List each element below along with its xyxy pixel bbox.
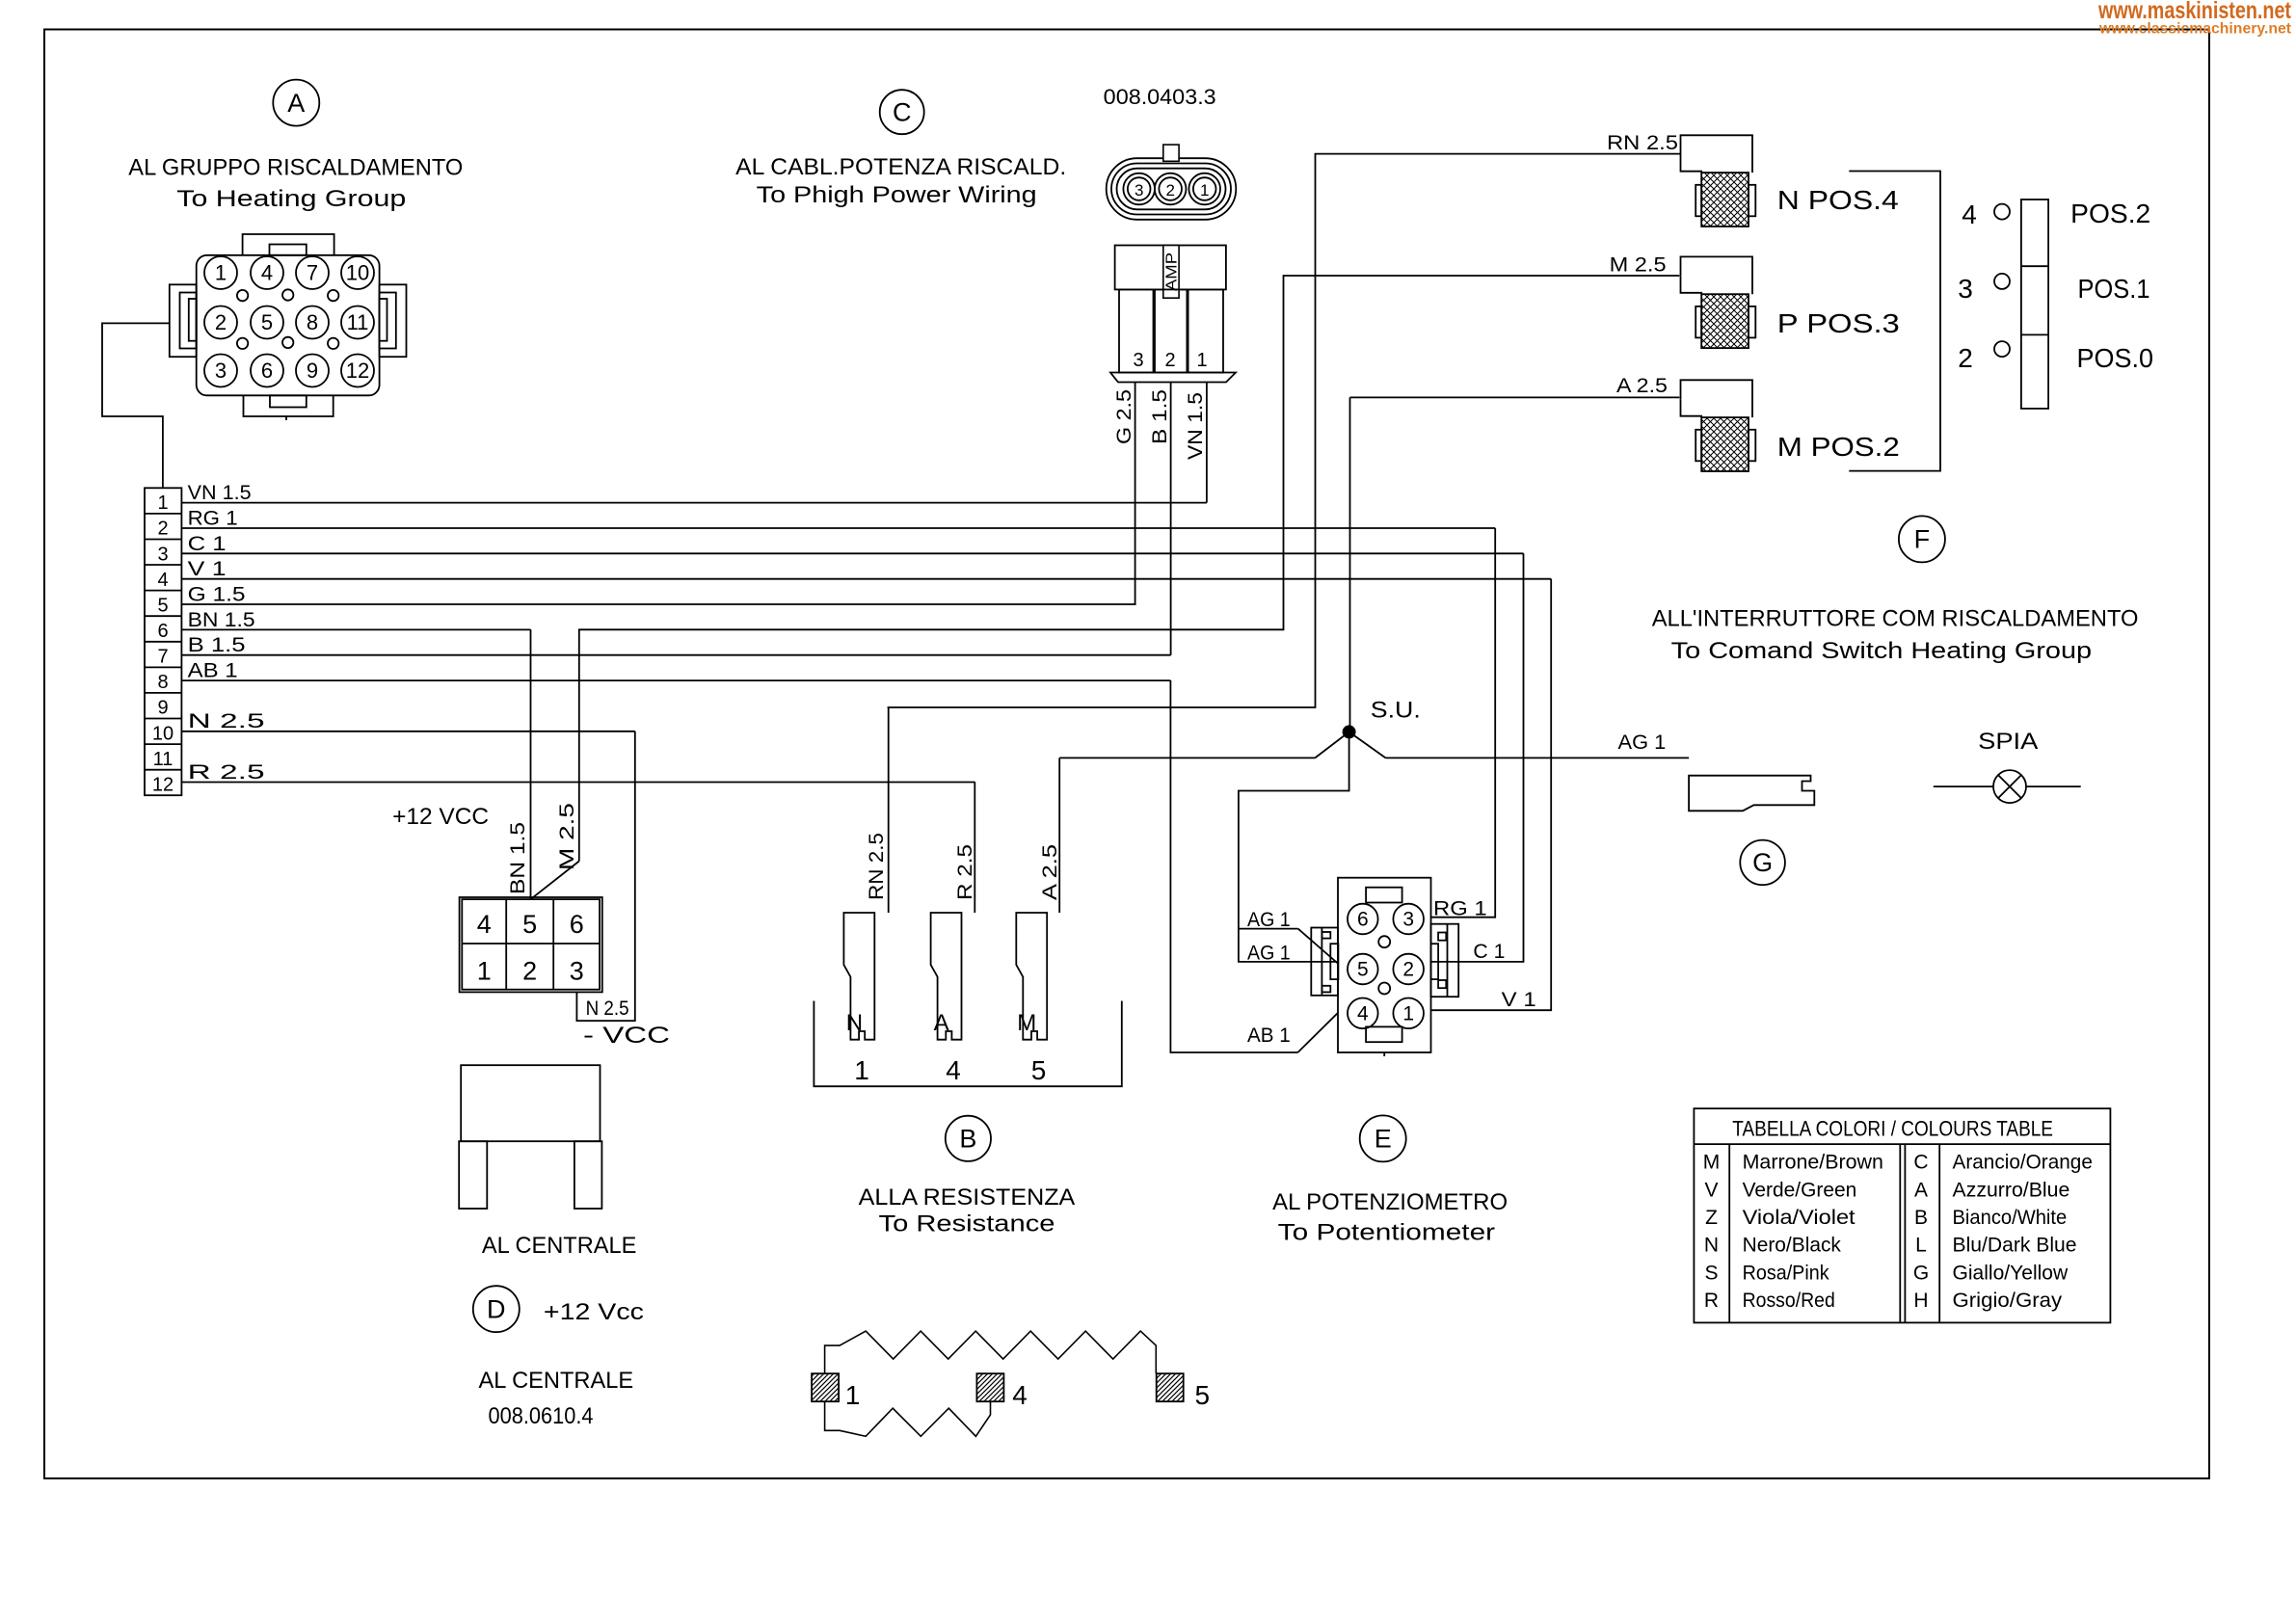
bullet connector P POS.3 — [1681, 256, 1753, 294]
svg-text:1: 1 — [1200, 181, 1209, 200]
splice left diagonal — [1315, 732, 1348, 758]
svg-text:AL CENTRALE: AL CENTRALE — [482, 1233, 637, 1259]
splice S.U. — [1343, 725, 1356, 738]
svg-text:AL CABL.POTENZA RISCALD.: AL CABL.POTENZA RISCALD. — [735, 154, 1066, 180]
svg-text:R: R — [1704, 1290, 1719, 1312]
wire G 1.5 from strip row 5 — [181, 603, 1135, 605]
svg-text:Viola/Violet: Viola/Violet — [1743, 1207, 1855, 1229]
svg-text:N: N — [846, 1010, 863, 1036]
wire B 1.5 from strip row 7 — [181, 654, 1170, 656]
AL CENTRALE connector — [461, 1065, 600, 1141]
svg-text:7: 7 — [307, 261, 318, 285]
svg-text:Giallo/Yellow: Giallo/Yellow — [1953, 1262, 2069, 1284]
svg-text:Blu/Dark Blue: Blu/Dark Blue — [1953, 1235, 2077, 1257]
oval pin 3 — [1123, 173, 1155, 205]
svg-text:POS.1: POS.1 — [2078, 274, 2150, 304]
svg-text:N: N — [1704, 1235, 1719, 1257]
label circle D — [473, 1286, 520, 1332]
svg-text:6: 6 — [570, 910, 584, 939]
svg-text:To Potentiometer: To Potentiometer — [1278, 1220, 1495, 1246]
pot pin 1 — [1393, 998, 1424, 1029]
svg-text:A 2.5: A 2.5 — [1616, 375, 1668, 397]
svg-text:Verde/Green: Verde/Green — [1743, 1179, 1857, 1201]
svg-text:1: 1 — [477, 957, 492, 986]
svg-text:C: C — [893, 98, 912, 127]
svg-text:1: 1 — [845, 1380, 861, 1410]
svg-text:4: 4 — [1012, 1380, 1028, 1410]
svg-text:G 2.5: G 2.5 — [1113, 389, 1135, 444]
bullet connector M POS.2 — [1681, 380, 1753, 417]
svg-text:1: 1 — [1196, 350, 1207, 371]
svg-text:F: F — [1914, 525, 1931, 554]
potentiometer connector body — [1338, 878, 1431, 1052]
svg-text:8: 8 — [157, 672, 168, 693]
tail VN 1.5 — [1206, 383, 1208, 503]
svg-text:V 1: V 1 — [188, 558, 227, 580]
svg-text:RN 2.5: RN 2.5 — [866, 833, 888, 900]
connector A left latch — [170, 284, 197, 357]
svg-text:3: 3 — [157, 544, 168, 565]
svg-text:TABELLA COLORI / COLOURS TABLE: TABELLA COLORI / COLOURS TABLE — [1732, 1116, 2053, 1140]
tail G 2.5 — [1135, 383, 1136, 605]
svg-text:To Phigh Power Wiring: To Phigh Power Wiring — [757, 182, 1037, 208]
pin 12 — [341, 355, 374, 387]
svg-text:B 1.5: B 1.5 — [1149, 389, 1171, 444]
bracket under blades — [814, 1001, 1121, 1087]
svg-text:4: 4 — [1962, 200, 1977, 229]
wire A 2.5 drop to blade M — [1058, 758, 1060, 913]
svg-text:5: 5 — [1195, 1380, 1211, 1410]
svg-text:M 2.5: M 2.5 — [556, 803, 578, 870]
wire V 1 — [1431, 579, 1552, 1011]
svg-text:12: 12 — [152, 775, 174, 796]
svg-text:A: A — [1914, 1179, 1928, 1201]
oval pin 2 — [1155, 173, 1187, 205]
wire AB 1 from strip row 8 — [181, 679, 1170, 681]
wire VN 1.5 from strip row 1 — [181, 502, 1207, 504]
connector A bottom tab — [244, 395, 334, 416]
svg-text:C: C — [1913, 1152, 1928, 1174]
svg-text:AL GRUPPO RISCALDAMENTO: AL GRUPPO RISCALDAMENTO — [128, 155, 463, 181]
svg-text:VN 1.5: VN 1.5 — [1185, 392, 1207, 460]
wire N 2.5 from strip row 10 — [181, 731, 634, 732]
svg-text:POS.2: POS.2 — [2070, 199, 2150, 228]
pin 10 — [341, 256, 374, 289]
wire RG 1 from strip row 2 — [181, 527, 1495, 529]
svg-text:N POS.4: N POS.4 — [1777, 185, 1899, 215]
svg-text:BN 1.5: BN 1.5 — [507, 822, 529, 894]
svg-text:N 2.5: N 2.5 — [188, 710, 265, 732]
tail B 1.5 — [1170, 383, 1172, 655]
wire V 1 from strip row 4 — [181, 578, 1551, 580]
wire A 2.5 vertical from splice — [1349, 397, 1351, 732]
svg-text:1: 1 — [854, 1055, 869, 1085]
svg-text:7: 7 — [157, 647, 168, 668]
6-pin block — [460, 897, 602, 992]
svg-text:AMP: AMP — [1164, 253, 1181, 291]
svg-text:L: L — [1915, 1235, 1927, 1257]
wire C 1 from strip row 3 — [181, 552, 1523, 554]
pot pin 3 — [1393, 904, 1424, 935]
svg-text:2: 2 — [1402, 959, 1414, 981]
svg-text:VN 1.5: VN 1.5 — [188, 482, 252, 504]
svg-text:To Comand Switch Heating Group: To Comand Switch Heating Group — [1671, 638, 2092, 664]
svg-text:11: 11 — [153, 749, 174, 770]
svg-text:SPIA: SPIA — [1978, 729, 2038, 755]
pin 7 — [296, 256, 329, 289]
svg-text:3: 3 — [1402, 909, 1414, 931]
pot pin 4 — [1348, 998, 1378, 1029]
svg-text:H: H — [1913, 1290, 1928, 1312]
svg-text:RG 1: RG 1 — [1433, 898, 1487, 920]
connector C oval face — [1107, 158, 1237, 220]
svg-text:2: 2 — [215, 310, 227, 334]
resistance blade N — [843, 913, 874, 1040]
pot right latch — [1431, 924, 1459, 997]
svg-text:5: 5 — [157, 595, 168, 616]
resistor upper zigzag — [825, 1331, 1157, 1373]
svg-text:G: G — [1913, 1262, 1929, 1284]
svg-text:AG 1: AG 1 — [1247, 909, 1291, 931]
svg-text:3: 3 — [1958, 274, 1973, 304]
svg-text:4: 4 — [261, 261, 273, 285]
svg-text:9: 9 — [157, 698, 168, 719]
pin 3 — [204, 355, 237, 387]
pin 8 — [296, 306, 329, 339]
pot pin 6 — [1348, 904, 1378, 935]
svg-text:2: 2 — [157, 519, 168, 540]
svg-text:ALLA RESISTENZA: ALLA RESISTENZA — [859, 1184, 1076, 1211]
bracket to switch — [1849, 172, 1940, 471]
svg-text:RG 1: RG 1 — [188, 508, 238, 530]
svg-text:M: M — [1703, 1152, 1721, 1174]
pin 1 — [204, 256, 237, 289]
connector A top tab — [243, 234, 334, 255]
resistor lower zigzag — [825, 1401, 991, 1436]
wire M 2.5 to P POS.3 — [579, 276, 1680, 862]
svg-text:4: 4 — [946, 1055, 961, 1085]
connector C plug body — [1115, 246, 1226, 290]
plug base trapezoid — [1110, 373, 1236, 383]
svg-text:AL POTENZIOMETRO: AL POTENZIOMETRO — [1272, 1189, 1508, 1215]
pot left latch — [1311, 928, 1338, 996]
svg-text:C 1: C 1 — [188, 533, 227, 555]
pot pin 2 — [1393, 954, 1424, 985]
pot pin 5 — [1348, 954, 1378, 985]
svg-text:R 2.5: R 2.5 — [954, 844, 976, 900]
svg-text:+12 VCC: +12 VCC — [392, 804, 489, 830]
resistor terminal 4 — [976, 1373, 1003, 1401]
wire RG 1 — [1431, 528, 1496, 918]
label circle F — [1899, 516, 1945, 562]
svg-text:N 2.5: N 2.5 — [586, 998, 629, 1020]
wire RN 2.5 drop to blade N — [888, 707, 890, 913]
svg-text:2: 2 — [1164, 350, 1175, 371]
svg-text:4: 4 — [157, 570, 168, 591]
svg-text:AG 1: AG 1 — [1618, 732, 1667, 754]
svg-text:www.classicmachinery.net: www.classicmachinery.net — [2098, 21, 2291, 38]
connector A right latch — [380, 284, 407, 357]
svg-text:6: 6 — [1357, 909, 1369, 931]
resistance blade M — [1016, 913, 1047, 1040]
svg-text:2: 2 — [1165, 181, 1174, 200]
bullet connector N POS.4 — [1681, 135, 1753, 173]
svg-text:10: 10 — [346, 261, 369, 285]
svg-text:V 1: V 1 — [1502, 989, 1536, 1011]
svg-text:3: 3 — [570, 957, 584, 986]
svg-text:Azzurro/Blue: Azzurro/Blue — [1953, 1179, 2070, 1201]
wire BN 1.5 from strip row 6 — [181, 628, 530, 630]
svg-text:8: 8 — [307, 310, 318, 334]
svg-text:To Heating Group: To Heating Group — [176, 186, 406, 212]
svg-text:G: G — [1752, 848, 1773, 877]
svg-text:1: 1 — [157, 492, 168, 514]
svg-text:P POS.3: P POS.3 — [1777, 308, 1900, 338]
svg-text:V: V — [1704, 1179, 1718, 1201]
pin 9 — [296, 355, 329, 387]
resistor terminal 1 — [812, 1373, 839, 1401]
pin 6 — [251, 355, 283, 387]
plug stems — [1119, 289, 1154, 372]
svg-text:Grigio/Gray: Grigio/Gray — [1953, 1290, 2063, 1312]
svg-text:B: B — [1914, 1207, 1928, 1229]
svg-text:AL CENTRALE: AL CENTRALE — [479, 1368, 634, 1394]
svg-text:1: 1 — [215, 261, 227, 285]
svg-text:B: B — [959, 1125, 976, 1154]
svg-text:5: 5 — [522, 910, 537, 939]
svg-text:M 2.5: M 2.5 — [1610, 254, 1667, 277]
svg-text:5: 5 — [261, 310, 273, 334]
svg-text:D: D — [487, 1295, 506, 1324]
svg-text:3: 3 — [1133, 350, 1143, 371]
pin 11 — [341, 306, 374, 339]
svg-text:RN 2.5: RN 2.5 — [1607, 132, 1678, 154]
svg-text:M: M — [1017, 1010, 1036, 1036]
label circle A — [273, 80, 319, 126]
label circle B — [946, 1116, 991, 1161]
svg-text:To Resistance: To Resistance — [879, 1211, 1055, 1237]
svg-text:Marrone/Brown: Marrone/Brown — [1743, 1152, 1883, 1174]
svg-text:008.0403.3: 008.0403.3 — [1104, 85, 1216, 109]
label circle C — [880, 90, 924, 134]
connector A body — [197, 255, 380, 396]
svg-text:3: 3 — [215, 359, 227, 383]
svg-text:B 1.5: B 1.5 — [188, 634, 246, 656]
wire R 2.5 from strip row 12 — [181, 782, 974, 784]
svg-text:R 2.5: R 2.5 — [188, 761, 265, 784]
AG 1 branch to pot pin 5 — [1239, 928, 1298, 930]
svg-text:Bianco/White: Bianco/White — [1953, 1207, 2068, 1229]
svg-text:Nero/Black: Nero/Black — [1743, 1235, 1842, 1257]
svg-text:A: A — [934, 1010, 949, 1036]
svg-text:9: 9 — [307, 359, 318, 383]
wire BN 1.5 drop to block — [530, 629, 532, 899]
svg-text:Rosa/Pink: Rosa/Pink — [1743, 1262, 1829, 1284]
svg-text:1: 1 — [1402, 1002, 1414, 1024]
svg-text:12: 12 — [346, 359, 369, 383]
splice right diagonal / AG 1 wire — [1349, 732, 1386, 758]
wire RN 2.5 — [888, 154, 1681, 707]
resistor terminal 5 — [1157, 1373, 1184, 1401]
svg-text:6: 6 — [261, 359, 273, 383]
svg-text:11: 11 — [347, 310, 369, 334]
svg-text:+12 Vcc: +12 Vcc — [544, 1299, 644, 1325]
svg-text:10: 10 — [152, 723, 174, 744]
svg-text:M POS.2: M POS.2 — [1777, 432, 1900, 462]
oval pin 1 — [1188, 173, 1220, 205]
svg-text:3: 3 — [1135, 181, 1143, 200]
wire N 2.5 from block pin 3 — [576, 732, 634, 1021]
wire AB 1 to pot pin 4 — [1170, 680, 1297, 1052]
svg-text:A: A — [287, 89, 305, 118]
colour table — [1694, 1108, 2110, 1322]
svg-text:POS.0: POS.0 — [2077, 343, 2154, 373]
svg-text:AB 1: AB 1 — [188, 660, 238, 682]
resistance blade A — [931, 913, 962, 1040]
wire A 2.5 horizontal — [1350, 396, 1680, 398]
svg-text:C 1: C 1 — [1473, 941, 1505, 963]
pin 4 — [251, 256, 283, 289]
svg-text:BN 1.5: BN 1.5 — [188, 609, 255, 631]
svg-text:4: 4 — [477, 910, 492, 939]
pin 2 — [204, 306, 237, 339]
svg-text:2: 2 — [1958, 343, 1973, 373]
crimp terminal flag — [1689, 776, 1814, 811]
svg-text:E: E — [1375, 1125, 1392, 1154]
svg-text:S: S — [1704, 1262, 1718, 1284]
label circle E — [1360, 1115, 1406, 1161]
svg-text:5: 5 — [1357, 959, 1369, 981]
svg-text:S.U.: S.U. — [1371, 698, 1421, 724]
svg-text:4: 4 — [1357, 1002, 1369, 1024]
wire C 1 — [1431, 553, 1524, 962]
splice drop to potentiometer — [1239, 732, 1349, 962]
wire R 2.5 drop to blade A — [974, 782, 975, 913]
svg-text:A 2.5: A 2.5 — [1039, 844, 1061, 900]
wire from connector A to terminal strip — [102, 323, 170, 488]
pin 5 — [251, 306, 283, 339]
svg-text:- VCC: - VCC — [583, 1023, 670, 1049]
svg-text:Z: Z — [1705, 1207, 1718, 1229]
label circle G — [1740, 840, 1785, 886]
svg-text:2: 2 — [522, 957, 537, 986]
svg-text:6: 6 — [157, 621, 168, 642]
svg-text:AB 1: AB 1 — [1247, 1024, 1291, 1047]
svg-text:5: 5 — [1031, 1055, 1047, 1085]
svg-text:G 1.5: G 1.5 — [188, 584, 246, 606]
terminal strip — [145, 488, 181, 795]
svg-text:Rosso/Red: Rosso/Red — [1743, 1290, 1835, 1312]
svg-text:Arancio/Orange: Arancio/Orange — [1953, 1152, 2093, 1174]
svg-text:ALL'INTERRUTTORE COM RISCALDAM: ALL'INTERRUTTORE COM RISCALDAMENTO — [1652, 606, 2139, 632]
svg-text:008.0610.4: 008.0610.4 — [489, 1403, 594, 1429]
svg-text:AG 1: AG 1 — [1247, 943, 1291, 965]
